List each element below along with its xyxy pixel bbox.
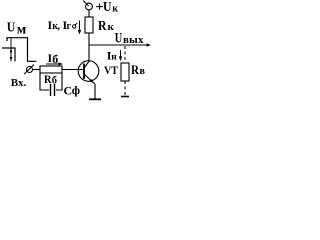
svg-text:г: г xyxy=(67,21,72,32)
output wire Uвых with arrow xyxy=(89,43,151,46)
svg-text:ф: ф xyxy=(72,83,80,97)
amplitude double arrow xyxy=(10,38,13,61)
label Rб xyxy=(44,72,57,87)
label Rв xyxy=(131,62,146,77)
svg-text:U: U xyxy=(115,31,123,47)
wire emitter to ground xyxy=(94,84,96,99)
terminal +Uк xyxy=(83,1,92,10)
input pulse waveform left baseline xyxy=(2,48,15,62)
svg-text:вых: вых xyxy=(123,34,144,46)
load bottom bar xyxy=(121,96,129,98)
wire Rк to collector xyxy=(88,33,90,61)
capacitor branch wires xyxy=(40,73,49,90)
label Rк xyxy=(98,19,115,34)
svg-text:U: U xyxy=(7,21,16,36)
label Uм xyxy=(7,21,27,38)
resistor Rб xyxy=(40,66,62,73)
transistor VT xyxy=(78,61,99,84)
resistor Rв xyxy=(121,63,129,81)
ground xyxy=(89,98,101,100)
svg-text:U: U xyxy=(103,0,112,15)
svg-text:R: R xyxy=(131,62,140,77)
dashed wire output to Rв xyxy=(124,46,126,63)
dashed wire Rв to bottom xyxy=(124,81,126,95)
svg-text:н: н xyxy=(111,53,117,63)
input terminal xyxy=(24,65,34,75)
svg-text:R: R xyxy=(44,72,52,86)
svg-text:м: м xyxy=(17,23,27,38)
capacitor Сф plates xyxy=(51,84,55,96)
resistor Rк xyxy=(85,17,93,33)
svg-text:к: к xyxy=(108,21,115,33)
input pulse waveform top xyxy=(7,38,37,62)
label Iк, Iг xyxy=(48,18,78,32)
svg-text:R: R xyxy=(98,19,107,34)
wire terminal to Rк xyxy=(88,10,90,17)
label Uвых xyxy=(115,31,144,47)
label Сф xyxy=(64,83,81,98)
label Iб with current arrow xyxy=(46,51,63,66)
label Iн with down arrow xyxy=(107,49,122,63)
current arrow Iк down xyxy=(78,21,81,35)
svg-text:Вх.: Вх. xyxy=(11,77,27,89)
wire input to Rб xyxy=(33,69,41,71)
label +Uк xyxy=(96,0,118,15)
svg-text:к: к xyxy=(112,4,118,15)
wire base xyxy=(62,69,84,71)
svg-text:VT: VT xyxy=(104,65,118,77)
svg-text:в: в xyxy=(140,66,146,77)
